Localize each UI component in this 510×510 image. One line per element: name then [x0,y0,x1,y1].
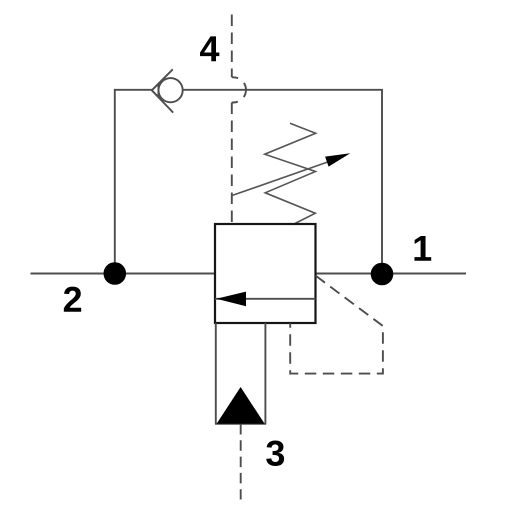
label port 4 [200,36,219,61]
spring adjustment arrow [231,153,350,196]
flow path arrow inside valve body [215,292,316,307]
wire: port 1 horizontal line [316,273,467,275]
node 1 junction dot [371,263,394,286]
wire: port 2 horizontal line [31,273,216,275]
pilot line: dashed vertical with hop over top wire [232,15,246,225]
label port 2 [64,287,81,312]
tank flow triangle at port 3 [217,387,265,424]
node 2 junction dot [104,262,127,285]
wire: right riser from node 1 to top loop [183,90,382,274]
dashed drain line below port 3 [240,424,242,500]
label port 1 [414,236,431,261]
pilot drain dashed loop on right [290,276,383,374]
label port 3 [266,440,284,466]
outlet tube to port 3 [215,323,266,424]
check valve V1 [152,69,183,112]
valve body box [215,224,316,323]
wire: left riser from node 2 to top loop [115,90,152,274]
spring [265,123,316,224]
